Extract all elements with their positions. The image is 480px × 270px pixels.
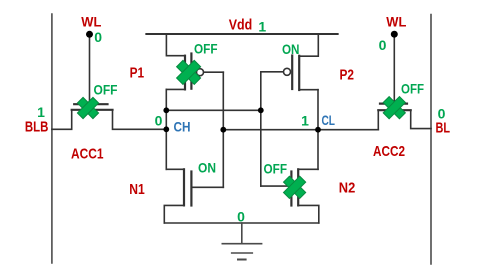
transistor N2 gate bar [290, 172, 292, 206]
svg-text:ACC2: ACC2 [373, 143, 405, 160]
svg-text:N2: N2 [339, 180, 356, 197]
transistor N1 gate bar [190, 172, 192, 206]
svg-text:OFF: OFF [94, 82, 118, 98]
wire BLB to ACC1 source [52, 110, 72, 130]
op-amp bubble P1 gate [197, 69, 204, 76]
svg-text:CL: CL [321, 112, 335, 128]
transistor ACC1 gate bar [74, 103, 107, 105]
Vdd rail [146, 33, 337, 35]
transistor ACC2 gate bar [380, 102, 407, 104]
transistor N2 channel [297, 169, 299, 205]
wire CL to gates of P1 N1 (vertical) [222, 72, 224, 187]
svg-text:P2: P2 [339, 66, 354, 83]
transistor ACC1 channel [72, 109, 113, 111]
svg-text:ON: ON [198, 159, 216, 175]
wire CH to gates of P2 N2 (upper) [166, 109, 260, 111]
junction dot CH upper [163, 107, 169, 113]
junction dot WL right [391, 31, 398, 38]
svg-text:ACC1: ACC1 [71, 146, 104, 163]
transistor N2 gate lead [261, 185, 292, 187]
wire CL to ACC2 source [377, 110, 379, 130]
svg-text:0: 0 [155, 113, 163, 129]
word line WL left wire [89, 34, 91, 103]
OFF X mark P1 [177, 60, 201, 84]
transistor P1 channel [184, 56, 186, 90]
bit line BL [430, 15, 432, 265]
svg-text:1: 1 [301, 113, 309, 129]
transistor N1 gate lead [191, 186, 223, 188]
wire node CL vertical [317, 90, 319, 170]
OFF X mark ACC1 [77, 97, 98, 118]
wire ACC2 drain to BL [411, 110, 431, 128]
transistor ACC2 channel [378, 109, 410, 111]
svg-text:WL: WL [386, 13, 406, 29]
svg-text:P1: P1 [130, 65, 145, 82]
word line WL right wire [393, 34, 395, 103]
svg-text:OFF: OFF [194, 41, 218, 57]
svg-text:BLB: BLB [25, 119, 49, 136]
svg-text:OFF: OFF [264, 161, 288, 177]
wire node CL horizontal [223, 129, 378, 131]
transistor N2 source wire to ground [298, 205, 319, 223]
transistor P1 gate lead [204, 71, 224, 73]
ground rail [164, 222, 318, 224]
transistor P2 gate lead [261, 71, 284, 73]
OFF X mark ACC2 [383, 97, 405, 119]
svg-text:0: 0 [237, 209, 245, 225]
transistor N2 drain stub [298, 168, 318, 170]
wire ACC1 drain to node CH [113, 110, 167, 130]
ground symbol [222, 223, 261, 260]
transistor P2 drain stub [299, 89, 318, 91]
junction dot CL left [220, 127, 226, 133]
transistor N1 drain stub [166, 168, 184, 170]
transistor P2 source wire from Vdd [299, 34, 318, 56]
transistor P2 gate bar [291, 56, 293, 90]
transistor P1 drain stub [166, 88, 185, 90]
wire node CH vertical [165, 89, 167, 169]
svg-text:0: 0 [94, 29, 102, 45]
transistor N1 channel [183, 169, 185, 205]
svg-text:N1: N1 [129, 181, 145, 198]
svg-text:CH: CH [174, 119, 191, 135]
svg-text:0: 0 [379, 37, 387, 53]
svg-text:WL: WL [81, 13, 101, 29]
junction dot CH gate coupling [258, 107, 264, 113]
svg-text:OFF: OFF [401, 81, 424, 97]
transistor P1 source wire from Vdd [166, 34, 185, 56]
junction dot node CH [163, 126, 169, 132]
svg-text:1: 1 [258, 19, 266, 35]
transistor N1 source wire to ground [164, 205, 184, 223]
OFF X mark N2 [283, 176, 305, 198]
svg-text:Vdd: Vdd [229, 17, 253, 34]
svg-text:BL: BL [436, 120, 451, 137]
bit line BLB [51, 14, 53, 263]
junction dot WL left [86, 31, 93, 38]
svg-text:ON: ON [282, 41, 300, 57]
wire CH to gates vertical (x=261) [260, 72, 262, 186]
transistor P2 channel [298, 56, 300, 90]
transistor P1 gate bar [190, 54, 192, 89]
op-amp bubble P2 gate [284, 68, 291, 75]
junction dot CL right [315, 127, 321, 133]
